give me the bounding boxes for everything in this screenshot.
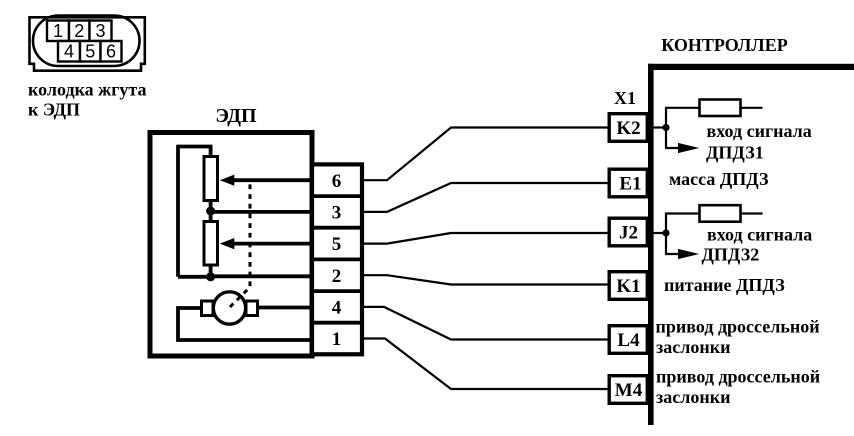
wire: pin 6 to K2 [362, 128, 608, 181]
arrow: вход сигнала ДПДЗ1 [678, 143, 699, 153]
svg-text:X1: X1 [614, 88, 636, 108]
node: J2 branch junction [662, 229, 669, 236]
motor M brush right [246, 301, 258, 316]
svg-text:3: 3 [95, 21, 105, 41]
svg-text:колодка жгута: колодка жгута [28, 80, 146, 100]
svg-text:вход сигнала: вход сигнала [707, 225, 812, 245]
svg-text:6: 6 [106, 42, 116, 62]
wire: J2 to internal node [653, 232, 666, 234]
svg-text:J2: J2 [619, 223, 638, 244]
connector pin 4 cell [58, 41, 80, 62]
wire: K2 to internal node [653, 126, 666, 128]
controller top boundary bar [648, 64, 854, 70]
controller left boundary line [648, 64, 654, 425]
svg-text:2: 2 [74, 21, 84, 41]
wire: up to pull-up resistor ДПДЗ2 [666, 214, 700, 234]
svg-text:масса ДПДЗ: масса ДПДЗ [669, 169, 769, 189]
wire: resistor ДПДЗ2 right lead [741, 212, 763, 214]
wire: up to pull-up resistor ДПДЗ1 [666, 108, 700, 128]
wire: R1 bottom to junction [209, 201, 213, 222]
wire: R2 bottom to bottom junction [209, 265, 213, 277]
wire: down to ДПДЗ2 signal arrow [666, 233, 678, 254]
node: K2 branch junction [662, 124, 669, 131]
svg-text:заслонки: заслонки [656, 387, 730, 407]
mechanical link (dashed) from motor to wipers [230, 179, 250, 307]
connector X: колодка жгута к ЭДП (outer body with notched bottom corners) [30, 17, 145, 70]
terminal L4 [609, 326, 647, 354]
terminal K2 [609, 114, 647, 142]
svg-text:M4: M4 [615, 380, 643, 401]
wire: bottom junction to left bus [178, 275, 211, 279]
svg-text:к ЭДП: к ЭДП [28, 100, 80, 120]
potentiometer R2 track (ДПДЗ2) [204, 222, 218, 266]
terminal J2 [609, 218, 647, 246]
svg-text:4: 4 [64, 42, 74, 62]
wire: pin 2 to K1 [362, 275, 608, 284]
wire: pin 5 to J2 [362, 233, 608, 244]
svg-text:привод дроссельной: привод дроссельной [656, 367, 820, 387]
connector pin 6 cell [101, 41, 122, 62]
svg-text:3: 3 [332, 203, 342, 224]
svg-text:ДПДЗ2: ДПДЗ2 [702, 245, 760, 265]
svg-text:L4: L4 [617, 330, 640, 351]
pin block separators [312, 196, 362, 323]
connector pin 3 cell [90, 21, 112, 42]
motor M body [213, 292, 245, 324]
svg-text:ЭДП: ЭДП [215, 105, 257, 127]
terminal E1 [609, 169, 647, 197]
connector pin 1 cell [47, 21, 69, 42]
svg-text:4: 4 [332, 298, 342, 319]
terminal M4 [609, 376, 647, 404]
wire: motor left brush loop to pin 1 [178, 308, 313, 340]
arrow: вход сигнала ДПДЗ2 [678, 249, 699, 259]
node: bottom junction [206, 272, 215, 281]
wire: junction to pin 3 [211, 210, 313, 214]
connector pin 5 cell [80, 41, 101, 62]
svg-text:K2: K2 [616, 118, 640, 139]
svg-text:заслонки: заслонки [656, 337, 730, 357]
wire: pin 3 to E1 [362, 183, 608, 212]
wire: pin 4 to L4 [362, 307, 608, 340]
wire: pin 1 to M4 [362, 339, 608, 390]
svg-text:питание ДПДЗ: питание ДПДЗ [664, 275, 785, 295]
svg-text:ДПДЗ1: ДПДЗ1 [706, 143, 764, 163]
svg-text:E1: E1 [619, 174, 641, 195]
motor M brush left [202, 301, 214, 316]
wire: resistor ДПДЗ1 right lead [741, 107, 763, 109]
ЭДП module box [150, 133, 312, 357]
pull-up resistor (ДПДЗ1 input) [700, 100, 741, 117]
svg-text:K1: K1 [616, 276, 640, 297]
pull-up resistor (ДПДЗ2 input) [700, 205, 741, 222]
svg-text:5: 5 [85, 42, 95, 62]
svg-text:2: 2 [332, 266, 342, 287]
connector inner stadium shell [33, 16, 140, 67]
svg-text:1: 1 [332, 329, 342, 350]
pin block frame [312, 164, 362, 354]
wiper arrow 2 (to pin 5) [220, 238, 313, 249]
terminal K1 [609, 272, 647, 300]
svg-text:1: 1 [53, 21, 63, 41]
wire: top feed to R1 [176, 147, 210, 158]
svg-text:вход сигнала: вход сигнала [707, 121, 812, 141]
wire: down to ДПДЗ1 signal arrow [666, 128, 678, 149]
node: R1-R2 junction [206, 207, 215, 216]
wire: bottom junction to pin 2 [211, 274, 313, 278]
potentiometer R1 track (ДПДЗ1) [204, 157, 218, 201]
svg-text:6: 6 [332, 171, 342, 192]
svg-text:КОНТРОЛЛЕР: КОНТРОЛЛЕР [661, 35, 787, 55]
svg-text:привод дроссельной: привод дроссельной [656, 317, 820, 337]
wire: motor right brush to pin 4 [258, 306, 314, 310]
wiper arrow 1 (to pin 6) [220, 175, 313, 186]
wire: left vertical bus of potentiometer loop [176, 147, 180, 277]
svg-text:5: 5 [332, 234, 342, 255]
connector pin 2 cell [69, 21, 90, 42]
